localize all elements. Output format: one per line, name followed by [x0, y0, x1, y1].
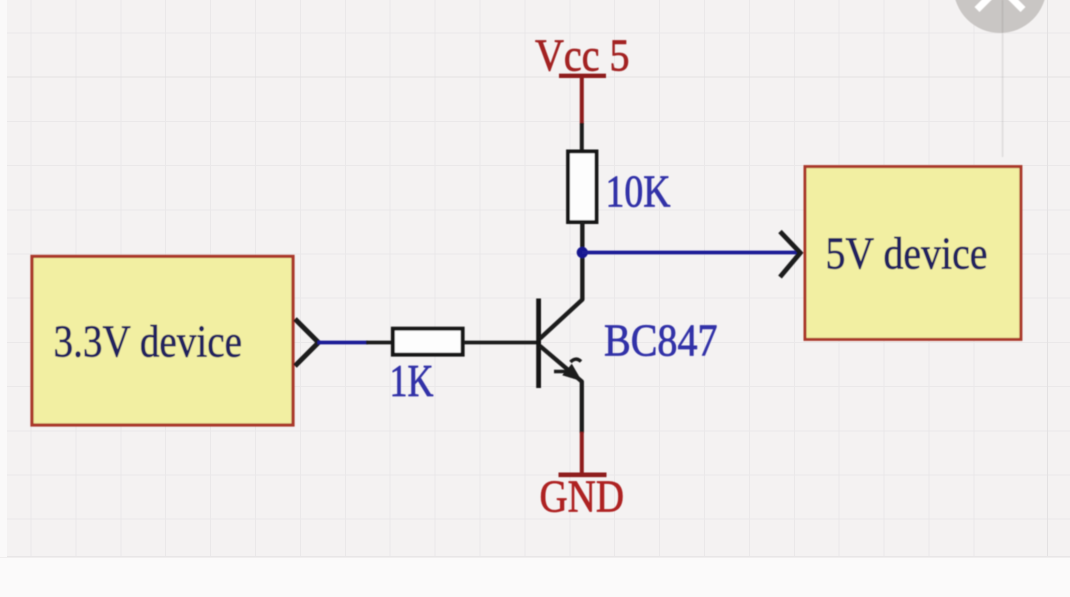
svg-text:3.3V device: 3.3V device	[54, 316, 243, 367]
svg-text:Vcc 5: Vcc 5	[535, 30, 630, 81]
svg-text:1K: 1K	[390, 355, 434, 406]
svg-text:GND: GND	[540, 471, 625, 522]
svg-text:BC847: BC847	[604, 315, 718, 366]
svg-text:5V device: 5V device	[826, 228, 988, 279]
svg-text:10K: 10K	[606, 166, 671, 217]
